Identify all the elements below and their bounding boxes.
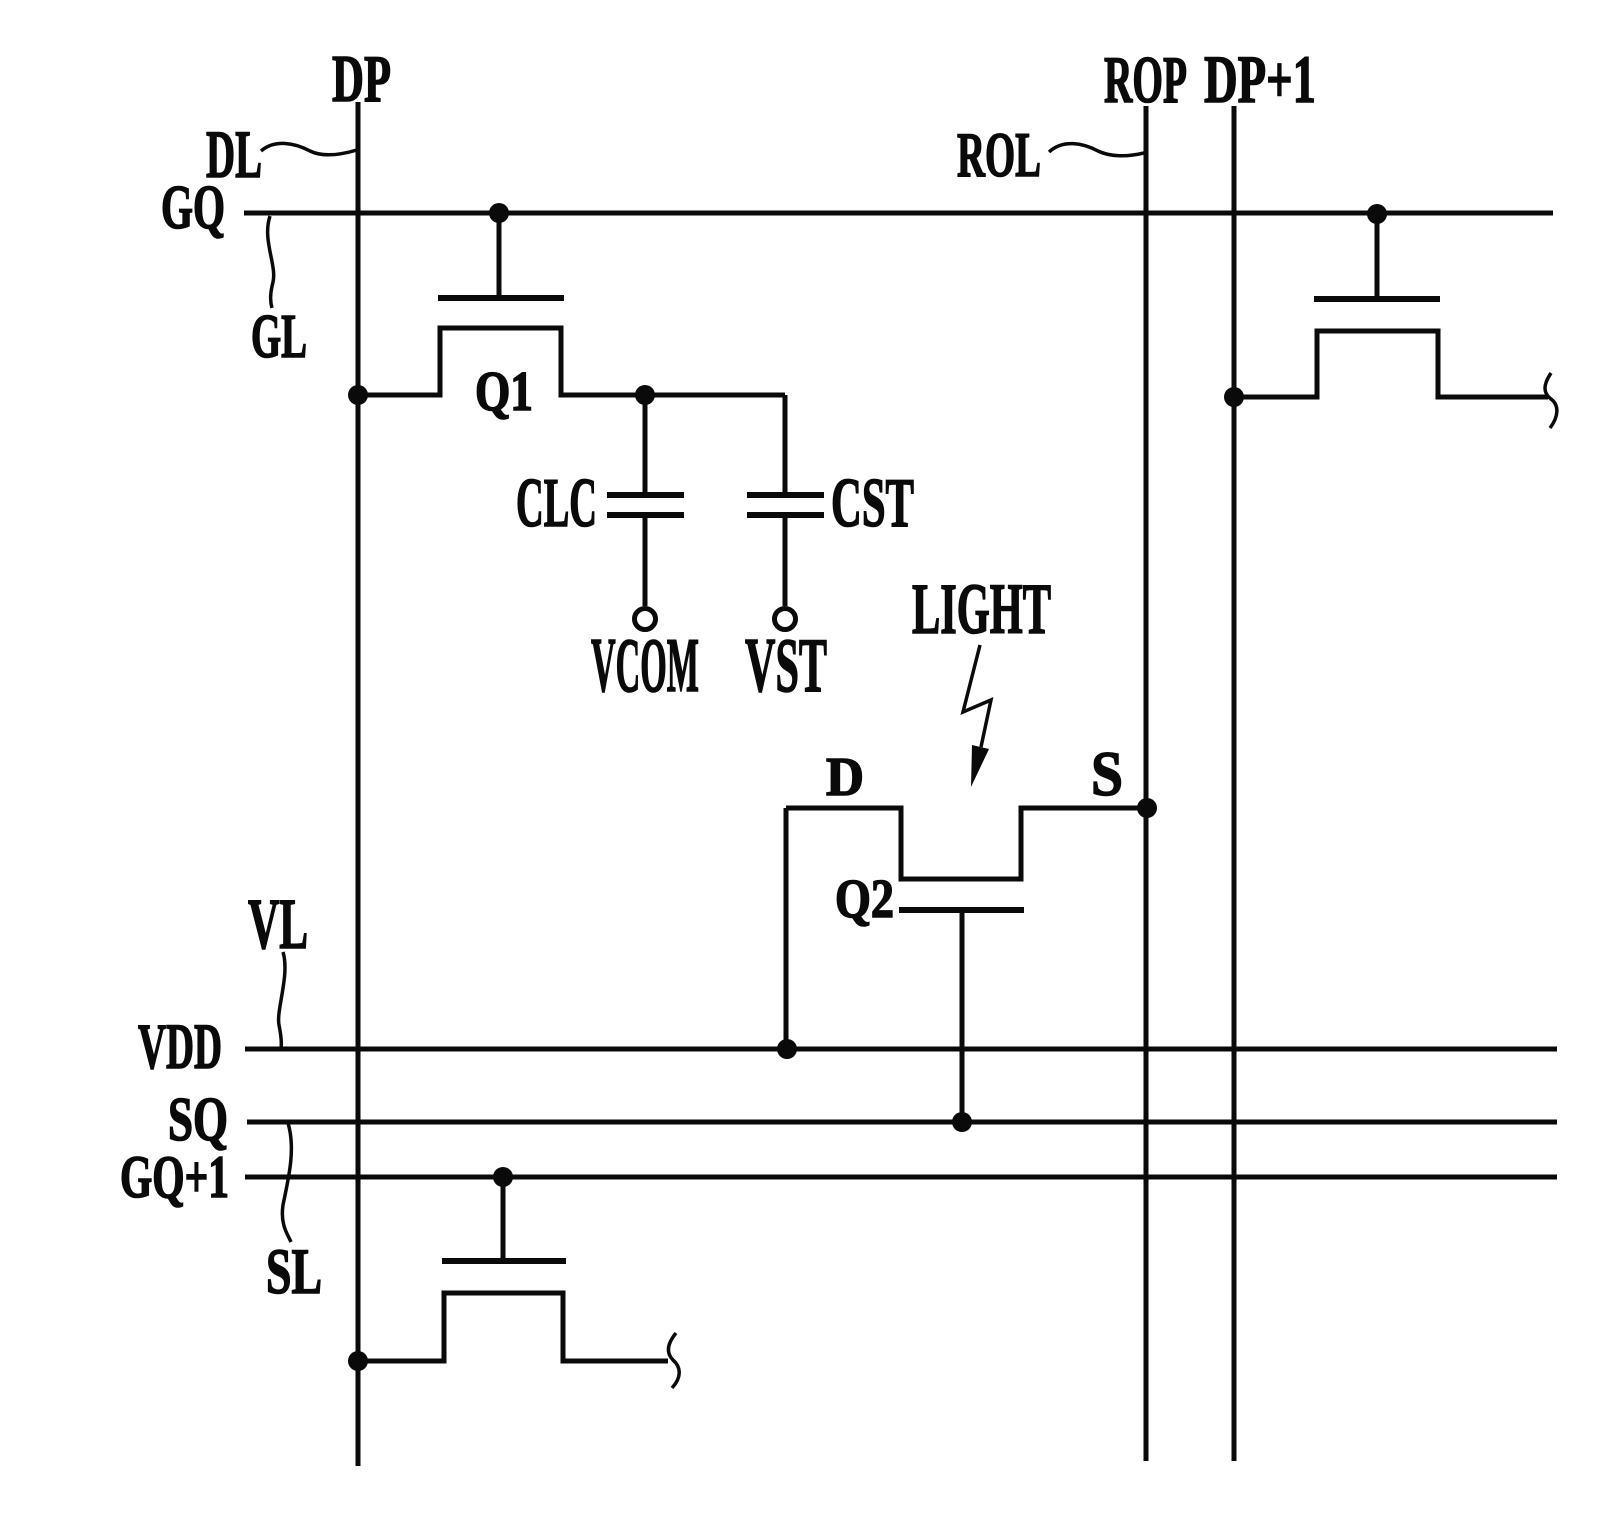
- leader squiggle SL: [282, 1123, 291, 1242]
- svg-text:S: S: [1091, 738, 1123, 809]
- svg-text:SL: SL: [266, 1236, 322, 1308]
- leader squiggle ROL: [1049, 144, 1144, 156]
- transistor next-row gate bar: [442, 1258, 566, 1264]
- wire data line DP (vertical): [356, 102, 361, 1466]
- svg-text:CST: CST: [831, 465, 914, 542]
- node dot Q2 drain x VDD: [777, 1039, 797, 1059]
- node dot Q2 gate x SQ: [952, 1112, 972, 1132]
- transistor next-column gate wire: [1375, 214, 1380, 296]
- transistor next-column channel and source/drain: [1234, 331, 1548, 397]
- node dot DP x next-row transistor: [348, 1351, 368, 1371]
- capacitor CLC top wire: [643, 395, 648, 492]
- capacitor CLC plates: [607, 495, 684, 515]
- node dot DP x Q1 source: [348, 385, 368, 405]
- svg-text:VCOM: VCOM: [591, 622, 699, 708]
- svg-text:VDD: VDD: [138, 1011, 222, 1083]
- wire gate line GQ+1 (horizontal): [245, 1175, 1557, 1180]
- capacitor CST top wire: [783, 395, 788, 492]
- wire readout line ROP (vertical): [1144, 106, 1149, 1461]
- transistor next-row channel and source/drain: [358, 1293, 668, 1361]
- svg-text:DP: DP: [332, 42, 391, 116]
- light arrow bolt: [963, 645, 991, 747]
- leader squiggle DL: [261, 143, 357, 154]
- transistor next-column gate bar: [1314, 296, 1440, 302]
- wire gate line GQ (horizontal): [244, 211, 1553, 216]
- transistor Q1 gate wire: [497, 213, 502, 295]
- svg-text:LIGHT: LIGHT: [912, 569, 1051, 649]
- break mark next-column source: [1545, 373, 1557, 428]
- svg-text:VST: VST: [745, 622, 827, 708]
- svg-text:ROP: ROP: [1104, 43, 1187, 117]
- capacitor CST plates: [747, 495, 824, 515]
- svg-text:GQ: GQ: [161, 174, 225, 242]
- transistor Q2 gate bar: [899, 907, 1024, 913]
- node dot Q2 source x ROP: [1137, 798, 1157, 818]
- svg-text:GQ+1: GQ+1: [120, 1144, 229, 1210]
- terminal VST circle: [775, 609, 796, 630]
- svg-text:CLC: CLC: [516, 465, 597, 542]
- light arrow head: [971, 745, 989, 787]
- svg-text:Q2: Q2: [835, 868, 894, 929]
- transistor Q2 channel and source/drain (photo TFT, inverted): [786, 808, 1147, 879]
- leader squiggle GL: [268, 216, 274, 308]
- wire sensor line SQ (horizontal): [247, 1120, 1557, 1125]
- svg-text:D: D: [826, 746, 864, 807]
- transistor next-row gate wire: [501, 1177, 506, 1258]
- svg-text:DP+1: DP+1: [1204, 41, 1316, 117]
- terminal VCOM circle: [635, 609, 656, 630]
- capacitor CLC bottom wire: [643, 518, 648, 606]
- transistor Q1 channel and source/drain: [358, 328, 785, 395]
- break mark next-row source: [668, 1333, 679, 1388]
- node dot Q1 drain / pixel node: [635, 385, 655, 405]
- transistor Q2 gate wire: [960, 910, 965, 1122]
- capacitor CST bottom wire: [783, 518, 788, 606]
- node dot GQ x next-column gate: [1367, 204, 1387, 224]
- transistor Q1 gate bar: [438, 295, 564, 301]
- svg-text:GL: GL: [251, 303, 307, 371]
- svg-text:ROL: ROL: [957, 119, 1041, 190]
- node dot GQ+1 x next-row gate: [493, 1167, 513, 1187]
- node dot DP+1 x next-column transistor: [1224, 387, 1244, 407]
- svg-text:Q1: Q1: [475, 361, 533, 423]
- svg-text:VL: VL: [248, 884, 308, 964]
- leader squiggle VL: [279, 952, 285, 1048]
- wire power line VDD (horizontal): [245, 1047, 1557, 1052]
- node dot GQ x Q1 gate: [489, 203, 509, 223]
- wire data line DP+1 (vertical): [1232, 106, 1237, 1461]
- wire Q2 drain to VDD: [784, 808, 789, 1049]
